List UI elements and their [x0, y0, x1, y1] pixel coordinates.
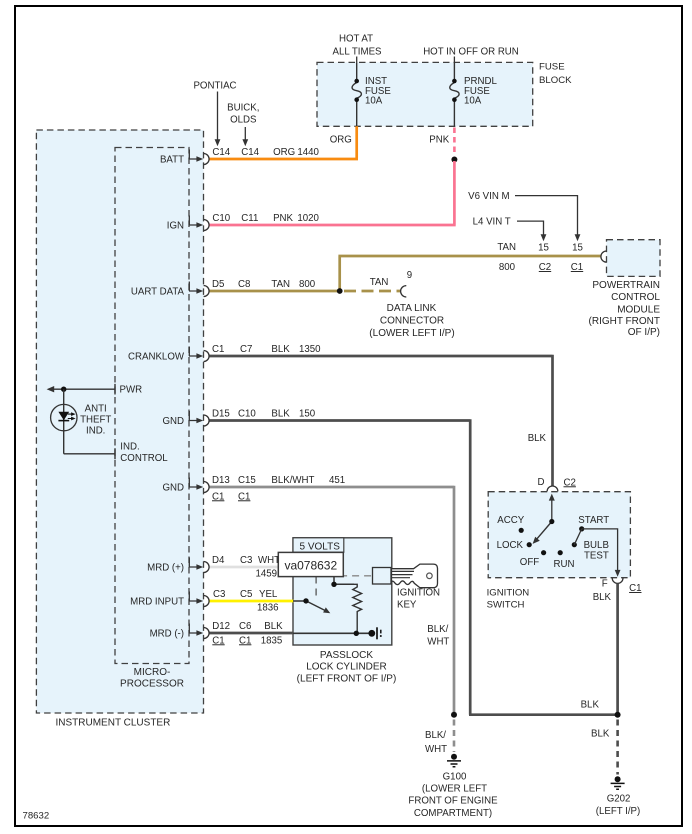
svg-text:C10: C10 — [238, 409, 256, 420]
svg-text:MRD (+): MRD (+) — [147, 563, 184, 574]
wire ORG 1440 — [209, 126, 358, 159]
svg-text:C14: C14 — [241, 147, 259, 158]
wire START to F terminal — [574, 529, 620, 577]
svg-text:15: 15 — [572, 243, 583, 254]
svg-text:IGN: IGN — [167, 221, 184, 232]
mechanical link dashed vertical — [315, 553, 317, 599]
ignition key cylinder face — [373, 568, 392, 585]
svg-text:C2: C2 — [564, 477, 576, 488]
junction node left gnd — [451, 712, 457, 718]
mechanical link dashed horizontal to key — [316, 575, 372, 577]
svg-text:BLOCK: BLOCK — [539, 75, 572, 86]
BUICK OLDS pointer arrow — [242, 127, 248, 146]
5 volts sub-box — [293, 538, 344, 552]
pwr wire and arrow — [47, 384, 115, 395]
svg-text:ALL TIMES: ALL TIMES — [333, 47, 383, 58]
wire BLK 1835 — [209, 632, 293, 635]
fuse block box — [317, 62, 533, 126]
svg-text:C1: C1 — [571, 262, 583, 273]
svg-text:C3: C3 — [213, 589, 225, 600]
instrument cluster box — [36, 130, 203, 713]
watermark va078632 — [278, 552, 343, 576]
svg-text:FUSE: FUSE — [539, 62, 565, 73]
svg-text:(LEFT FRONT OF I/P): (LEFT FRONT OF I/P) — [297, 673, 397, 684]
svg-text:BUICK,: BUICK, — [227, 103, 259, 114]
svg-text:MRD (-): MRD (-) — [150, 629, 184, 640]
svg-text:C7: C7 — [240, 344, 252, 355]
ignition switch C1 terminal F connector — [612, 578, 623, 583]
ground G100 — [447, 754, 461, 767]
svg-text:BLK: BLK — [593, 592, 612, 603]
svg-text:BLK/: BLK/ — [427, 624, 448, 635]
passlock internal wire from WHT to resistor top — [293, 567, 354, 584]
svg-text:C5: C5 — [240, 589, 252, 600]
L4 VIN T pointer — [517, 221, 546, 241]
svg-text:BULB: BULB — [584, 540, 609, 551]
passlock switch pivot node — [303, 598, 308, 603]
svg-text:G202: G202 — [607, 794, 631, 805]
svg-text:BLK: BLK — [264, 621, 283, 632]
micro-processor box — [115, 148, 189, 664]
ignition switch box — [488, 492, 630, 578]
svg-text:C6: C6 — [239, 621, 251, 632]
svg-text:PASSLOCK: PASSLOCK — [320, 650, 373, 661]
ignition switch internal arrow up to D — [549, 494, 555, 522]
svg-text:LOCK CYLINDER: LOCK CYLINDER — [306, 662, 387, 673]
svg-text:D12: D12 — [212, 621, 230, 632]
svg-text:IGNITION: IGNITION — [397, 587, 440, 598]
svg-text:WHT: WHT — [425, 744, 447, 755]
svg-text:BLK: BLK — [271, 409, 290, 420]
wire TAN 800 cluster to splice — [209, 290, 339, 293]
powertrain control module box — [607, 240, 661, 277]
svg-text:1835: 1835 — [261, 635, 283, 646]
svg-text:MRD INPUT: MRD INPUT — [130, 597, 184, 608]
svg-text:PONTIAC: PONTIAC — [193, 81, 236, 92]
svg-text:800: 800 — [499, 262, 516, 273]
wire BLK/WHT dashed to G100 — [453, 720, 456, 753]
svg-text:SWITCH: SWITCH — [487, 600, 525, 611]
svg-text:C11: C11 — [241, 213, 258, 224]
wire BLK ign switch to ground junction — [616, 584, 619, 714]
pin BATT with connector — [189, 150, 209, 165]
svg-text:(LEFT I/P): (LEFT I/P) — [596, 806, 641, 817]
svg-text:9: 9 — [407, 270, 412, 281]
svg-text:C8: C8 — [238, 279, 250, 290]
svg-text:START: START — [578, 515, 609, 526]
svg-text:PNK: PNK — [273, 213, 293, 224]
switch pivot node — [549, 519, 554, 524]
pin MRD INPUT with connector — [189, 592, 209, 607]
svg-text:BLK: BLK — [591, 728, 610, 739]
svg-text:LOCK: LOCK — [497, 540, 524, 551]
contact OFF — [541, 550, 546, 555]
svg-text:OLDS: OLDS — [230, 115, 257, 126]
svg-text:C1: C1 — [239, 635, 251, 646]
svg-text:C1: C1 — [238, 491, 250, 502]
splice node on PNK — [451, 157, 457, 163]
splice node TAN — [337, 288, 343, 294]
svg-text:1350: 1350 — [299, 344, 321, 355]
svg-text:78632: 78632 — [23, 811, 50, 822]
wire BLK 1350 cranklow — [209, 355, 552, 486]
svg-text:ORG: ORG — [273, 147, 295, 158]
pin IGN with connector — [189, 216, 209, 231]
contact ACCY — [519, 528, 524, 533]
svg-text:1020: 1020 — [297, 213, 319, 224]
svg-text:BLK/WHT: BLK/WHT — [271, 475, 314, 486]
passlock bottom wire BLK 1835 to case ground — [293, 632, 370, 634]
svg-text:TAN: TAN — [370, 277, 389, 288]
pin MRD plus with connector — [189, 558, 209, 573]
svg-text:C15: C15 — [238, 475, 256, 486]
svg-text:CRANKLOW: CRANKLOW — [128, 352, 185, 363]
svg-text:DATA LINK: DATA LINK — [387, 303, 437, 314]
svg-text:MICRO-: MICRO- — [134, 667, 171, 678]
svg-text:TAN: TAN — [271, 279, 290, 290]
svg-text:10A: 10A — [464, 96, 482, 107]
pin UART DATA with connector — [189, 282, 209, 297]
svg-text:THEFT: THEFT — [80, 415, 111, 426]
fuse F1 INST 10A — [352, 57, 361, 127]
anti-theft LED — [51, 404, 77, 430]
passlock node resistor bottom — [354, 631, 359, 636]
svg-text:KEY: KEY — [397, 599, 417, 610]
svg-text:BLK/: BLK/ — [425, 730, 446, 741]
svg-text:WHT: WHT — [427, 636, 449, 647]
passlock switch arm — [306, 601, 330, 613]
svg-text:CONTROL: CONTROL — [120, 453, 168, 464]
svg-text:BLK: BLK — [271, 344, 290, 355]
svg-text:ANTI: ANTI — [85, 403, 107, 414]
svg-text:(LOWER LEFT: (LOWER LEFT — [422, 784, 487, 795]
svg-text:(RIGHT FRONT: (RIGHT FRONT — [589, 316, 660, 327]
passlock internal wire YEL to switch pivot — [293, 600, 306, 602]
pwr junction node — [61, 387, 66, 392]
svg-text:HOT IN OFF OR RUN: HOT IN OFF OR RUN — [423, 47, 519, 58]
svg-text:C1: C1 — [212, 635, 224, 646]
svg-text:5 VOLTS: 5 VOLTS — [300, 542, 341, 553]
svg-text:1440: 1440 — [297, 147, 319, 158]
pin CRANKLOW with connector — [189, 347, 209, 362]
svg-text:HOT AT: HOT AT — [339, 34, 373, 45]
wire TAN dashed to DLC — [344, 290, 401, 293]
resistor R passlock — [353, 584, 362, 633]
svg-text:150: 150 — [299, 409, 316, 420]
pin GND D15 with connector — [189, 411, 209, 426]
svg-text:FRONT OF ENGINE: FRONT OF ENGINE — [408, 796, 498, 807]
svg-text:ACCY: ACCY — [497, 515, 524, 526]
svg-text:D13: D13 — [212, 475, 230, 486]
svg-text:YEL: YEL — [259, 589, 278, 600]
svg-text:CONTROL: CONTROL — [611, 292, 660, 303]
svg-text:D5: D5 — [212, 279, 224, 290]
svg-text:TEST: TEST — [584, 550, 609, 561]
svg-text:OFF: OFF — [520, 557, 539, 568]
contact BULB TEST — [572, 542, 577, 547]
PONTIAC pointer arrow — [215, 92, 221, 147]
wire PNK fuse link dashed — [453, 128, 456, 155]
svg-text:COMPARTMENT): COMPARTMENT) — [414, 808, 492, 819]
svg-text:OF I/P): OF I/P) — [628, 327, 660, 338]
ignition switch C2 terminal D connector — [547, 486, 558, 491]
svg-text:PWR: PWR — [120, 385, 143, 396]
svg-text:1459: 1459 — [256, 569, 278, 580]
svg-text:PNK: PNK — [429, 135, 449, 146]
wire WHT 1459 — [209, 566, 293, 569]
passlock lock cylinder box — [293, 538, 392, 645]
svg-text:POWERTRAIN: POWERTRAIN — [592, 280, 660, 291]
svg-text:WHT: WHT — [258, 555, 280, 566]
svg-text:D: D — [538, 477, 545, 488]
svg-text:IND.: IND. — [86, 425, 105, 436]
svg-text:RUN: RUN — [554, 559, 575, 570]
wire TAN splice up to PCM — [338, 256, 600, 291]
svg-text:800: 800 — [299, 279, 316, 290]
svg-text:C14: C14 — [212, 147, 230, 158]
svg-text:L4 VIN T: L4 VIN T — [473, 217, 511, 228]
svg-text:451: 451 — [329, 475, 345, 486]
passlock case ground symbol — [368, 627, 381, 639]
svg-text:GND: GND — [162, 416, 184, 427]
svg-text:MODULE: MODULE — [617, 304, 660, 315]
svg-text:IGNITION: IGNITION — [487, 588, 530, 599]
svg-text:GND: GND — [162, 483, 184, 494]
svg-text:CONNECTOR: CONNECTOR — [380, 315, 444, 326]
svg-text:TAN: TAN — [497, 242, 516, 253]
wire BLK 150 gnd — [209, 419, 616, 715]
pin GND D13 with connector — [189, 478, 209, 493]
svg-text:D15: D15 — [212, 409, 230, 420]
wire pwr to LED and ind control — [64, 389, 115, 459]
svg-text:ORG: ORG — [330, 135, 352, 146]
svg-text:C10: C10 — [212, 213, 230, 224]
ground G202 — [611, 776, 625, 789]
junction node right gnd — [615, 712, 621, 718]
svg-text:BLK: BLK — [528, 433, 547, 444]
svg-text:G100: G100 — [443, 772, 467, 783]
PCM connector — [601, 251, 607, 262]
wire YEL 1836 — [209, 600, 293, 603]
svg-text:C2: C2 — [539, 262, 551, 273]
svg-text:C1: C1 — [629, 583, 641, 594]
fuse F2 PRNDL 10A — [450, 57, 459, 127]
svg-text:BATT: BATT — [160, 155, 184, 166]
svg-text:10A: 10A — [365, 96, 383, 107]
svg-text:BLK: BLK — [581, 699, 600, 710]
contact START — [579, 526, 584, 531]
svg-text:D4: D4 — [212, 555, 225, 566]
svg-text:15: 15 — [538, 243, 549, 254]
svg-text:PROCESSOR: PROCESSOR — [120, 679, 184, 690]
svg-text:F: F — [602, 578, 608, 589]
passlock node at resistor top — [331, 582, 336, 587]
DLC terminal 9 connector — [401, 286, 407, 297]
pin MRD minus with connector — [189, 624, 209, 639]
svg-text:V6 VIN M: V6 VIN M — [468, 191, 509, 202]
contact LOCK — [527, 542, 532, 547]
svg-text:UART DATA: UART DATA — [131, 287, 185, 298]
svg-text:C1: C1 — [212, 344, 224, 355]
ignition key — [392, 564, 438, 588]
svg-text:C1: C1 — [212, 491, 224, 502]
svg-text:(LOWER LEFT I/P): (LOWER LEFT I/P) — [369, 328, 454, 339]
V6 VIN M pointer — [515, 196, 580, 242]
wire BLK/WHT 451 gnd — [209, 486, 454, 714]
svg-text:IND.: IND. — [120, 441, 139, 452]
contact RUN — [558, 550, 563, 555]
svg-text:INSTRUMENT CLUSTER: INSTRUMENT CLUSTER — [56, 718, 171, 729]
svg-text:va078632: va078632 — [284, 559, 337, 573]
svg-text:1836: 1836 — [257, 602, 279, 613]
wire PNK 1020 — [209, 161, 455, 225]
wire BLK dashed to G202 — [616, 720, 619, 775]
svg-text:C3: C3 — [240, 555, 252, 566]
ignition switch rotor arm — [533, 522, 552, 544]
